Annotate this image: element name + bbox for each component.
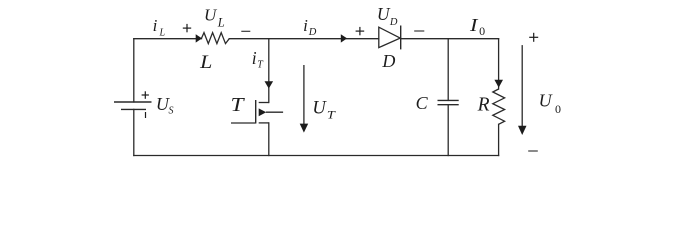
svg-text:i: i <box>303 16 308 35</box>
svg-text:i: i <box>153 16 158 35</box>
MOSFET T gate lead <box>231 122 256 124</box>
label UL <box>204 6 225 30</box>
wire left branch upper <box>133 39 135 102</box>
MOSFET T bottom stub <box>259 122 269 124</box>
label iT <box>252 48 264 71</box>
battery US top plate <box>114 101 152 103</box>
wire resistor branch upper <box>498 39 500 89</box>
svg-text:L: L <box>159 28 166 39</box>
svg-text:D: D <box>381 51 395 71</box>
MOSFET T gate bar <box>255 100 257 124</box>
svg-text:L: L <box>199 53 212 73</box>
MOSFET T body arrow <box>259 108 267 116</box>
capacitor C top plate <box>438 99 459 101</box>
wire capacitor branch lower <box>447 105 449 156</box>
plus sign diode <box>356 27 365 35</box>
svg-text:U: U <box>312 98 327 118</box>
current arrow I0 on resistor branch <box>494 80 503 88</box>
voltage arrow UT <box>300 65 309 133</box>
voltage arrow U0 <box>518 45 527 135</box>
wire resistor branch lower <box>498 124 500 155</box>
wire inductor to diode <box>230 38 379 40</box>
minus sign output <box>528 150 538 152</box>
inductor L zigzag <box>202 33 230 44</box>
MOSFET T body lead <box>266 111 283 113</box>
resistor R zigzag <box>493 89 505 124</box>
svg-text:I: I <box>469 15 479 35</box>
svg-text:R: R <box>477 94 490 115</box>
svg-text:C: C <box>416 93 429 113</box>
label I0 <box>469 15 485 38</box>
svg-text:D: D <box>308 27 317 38</box>
current arrow iL <box>196 34 202 42</box>
label US <box>156 94 174 117</box>
wire top-left segment <box>134 38 202 40</box>
label iL <box>153 16 166 38</box>
wire drain branch <box>268 39 270 103</box>
wire left branch lower <box>133 109 135 155</box>
wire diode to top-right corner <box>401 38 499 40</box>
MOSFET T top stub <box>259 102 269 104</box>
svg-text:i: i <box>252 48 257 68</box>
battery US bottom plate <box>121 108 146 110</box>
battery plus sign <box>142 91 149 99</box>
minus sign inductor <box>241 30 250 32</box>
label UD <box>377 4 398 28</box>
wire source branch <box>268 123 270 156</box>
plus sign output <box>529 33 538 42</box>
label iD <box>303 16 317 38</box>
battery minus tick <box>145 112 147 118</box>
minus sign diode <box>414 30 424 32</box>
svg-text:D: D <box>389 17 398 28</box>
svg-text:T: T <box>327 110 337 122</box>
svg-text:U: U <box>377 4 391 24</box>
capacitor C bottom plate <box>438 104 459 106</box>
label UT <box>312 98 336 121</box>
diode D cathode bar <box>400 26 402 50</box>
plus sign inductor <box>183 24 191 32</box>
svg-text:L: L <box>217 15 225 29</box>
svg-text:U: U <box>539 91 553 111</box>
wire capacitor branch upper <box>447 39 449 101</box>
svg-text:T: T <box>231 94 246 116</box>
svg-text:S: S <box>169 106 174 117</box>
svg-text:U: U <box>204 6 218 25</box>
label U0 <box>539 91 561 116</box>
wire bottom <box>134 155 499 157</box>
diode D triangle <box>379 27 400 47</box>
current arrow iT <box>265 81 274 88</box>
svg-text:0: 0 <box>555 102 561 116</box>
svg-text:0: 0 <box>479 24 485 38</box>
svg-text:T: T <box>257 60 264 71</box>
current arrow iD <box>341 34 347 42</box>
